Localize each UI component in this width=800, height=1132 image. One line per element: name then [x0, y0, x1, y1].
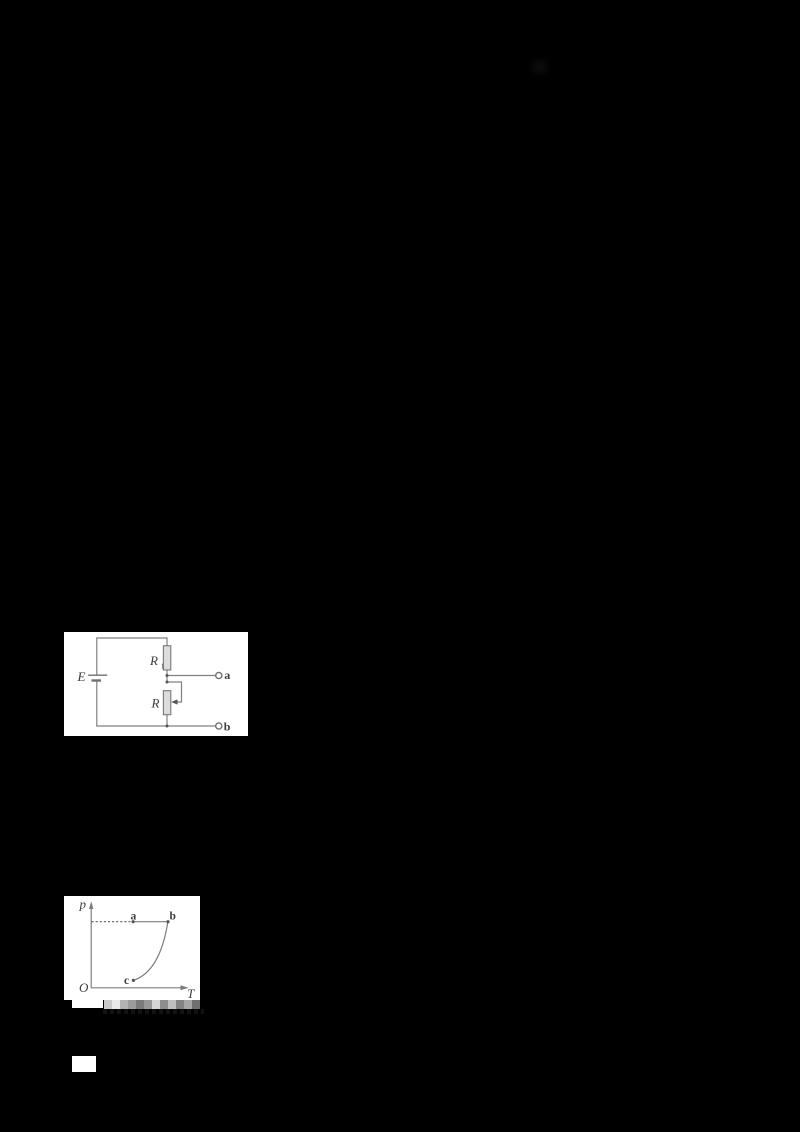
- svg-text:b: b: [224, 720, 231, 734]
- svg-text:a: a: [224, 668, 230, 682]
- svg-text:1: 1: [161, 662, 165, 671]
- svg-text:a: a: [131, 911, 137, 923]
- svg-text:T: T: [187, 986, 195, 1000]
- svg-text:O: O: [79, 980, 89, 995]
- svg-text:b: b: [170, 911, 176, 923]
- svg-text:R: R: [149, 653, 158, 668]
- svg-text:E: E: [77, 669, 86, 684]
- svg-text:R: R: [151, 696, 160, 711]
- svg-text:c: c: [124, 975, 129, 987]
- svg-text:p: p: [79, 897, 87, 912]
